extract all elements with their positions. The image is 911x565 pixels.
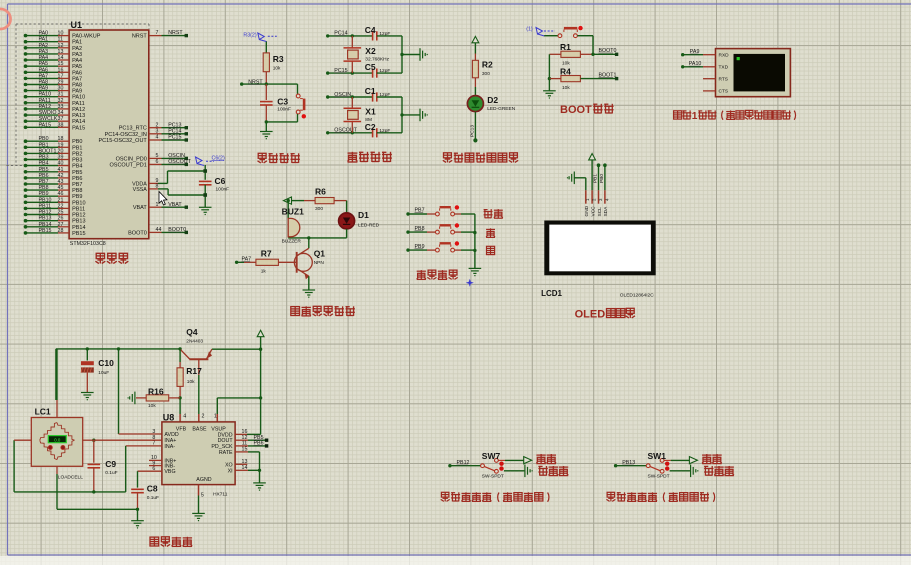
svg-text:PA11: PA11 bbox=[72, 101, 85, 107]
svg-text:6: 6 bbox=[156, 159, 159, 165]
svg-text:GND: GND bbox=[584, 205, 590, 216]
svg-text:PB11: PB11 bbox=[72, 206, 85, 212]
svg-text:STM32F103C8: STM32F103C8 bbox=[70, 241, 106, 247]
svg-text:8: 8 bbox=[156, 184, 159, 190]
svg-text:SCL: SCL bbox=[597, 207, 603, 217]
svg-text:PB11: PB11 bbox=[39, 203, 52, 209]
svg-text:PB6: PB6 bbox=[72, 176, 82, 182]
svg-text:TXD: TXD bbox=[719, 65, 729, 71]
svg-text:PA12: PA12 bbox=[72, 107, 85, 113]
svg-text:PA6: PA6 bbox=[72, 70, 82, 76]
svg-text:C4: C4 bbox=[365, 25, 376, 35]
svg-text:X2: X2 bbox=[365, 46, 376, 56]
svg-text:PC14-OSC32_IN: PC14-OSC32_IN bbox=[105, 132, 147, 138]
svg-text:3: 3 bbox=[152, 429, 155, 435]
svg-text:PA4: PA4 bbox=[39, 55, 49, 61]
svg-text:PB12: PB12 bbox=[72, 213, 85, 219]
svg-text:XI: XI bbox=[228, 468, 233, 474]
svg-text:C2: C2 bbox=[365, 122, 376, 132]
svg-text:PB7: PB7 bbox=[39, 179, 49, 185]
svg-text:PB15: PB15 bbox=[39, 228, 52, 234]
svg-text:NRST: NRST bbox=[132, 34, 148, 40]
svg-text:PB0: PB0 bbox=[72, 139, 82, 145]
svg-text:PA14: PA14 bbox=[72, 119, 85, 125]
svg-text:R2: R2 bbox=[482, 60, 493, 70]
svg-text:38: 38 bbox=[58, 122, 64, 128]
svg-text:42: 42 bbox=[58, 173, 64, 179]
svg-text:PA9: PA9 bbox=[39, 86, 49, 92]
svg-text:R1: R1 bbox=[560, 42, 571, 52]
svg-text:PB12: PB12 bbox=[39, 210, 52, 216]
svg-text:41: 41 bbox=[58, 167, 64, 173]
svg-text:30: 30 bbox=[58, 86, 64, 92]
svg-text:PA8: PA8 bbox=[72, 83, 82, 89]
svg-text:D1: D1 bbox=[358, 210, 369, 220]
svg-text:PA3: PA3 bbox=[72, 52, 82, 58]
svg-text:27: 27 bbox=[58, 222, 64, 228]
svg-text:PB0: PB0 bbox=[39, 136, 49, 142]
svg-text:CTS: CTS bbox=[719, 89, 729, 95]
svg-text:SW-SPDT: SW-SPDT bbox=[648, 474, 670, 480]
svg-text:PB1: PB1 bbox=[593, 174, 599, 183]
svg-text:LOADCELL: LOADCELL bbox=[58, 475, 83, 481]
svg-text:R6: R6 bbox=[315, 187, 326, 197]
svg-text:100nF: 100nF bbox=[277, 107, 291, 113]
svg-text:PA13: PA13 bbox=[72, 113, 85, 119]
svg-text:PA5: PA5 bbox=[72, 64, 82, 70]
svg-text:18: 18 bbox=[58, 136, 64, 142]
svg-text:10k: 10k bbox=[187, 379, 195, 385]
svg-text:33: 33 bbox=[58, 104, 64, 110]
svg-text:PA7: PA7 bbox=[39, 73, 49, 79]
svg-text:PB15: PB15 bbox=[72, 231, 85, 237]
svg-text:PB3: PB3 bbox=[72, 158, 82, 164]
svg-text:U8: U8 bbox=[163, 412, 175, 422]
svg-text:5: 5 bbox=[201, 493, 204, 499]
svg-text:0.0: 0.0 bbox=[54, 438, 61, 443]
svg-text:PC13_RTC: PC13_RTC bbox=[119, 126, 147, 132]
svg-text:LCD1: LCD1 bbox=[541, 289, 562, 298]
svg-text:R16: R16 bbox=[148, 386, 164, 396]
svg-text:PB13: PB13 bbox=[72, 219, 85, 225]
svg-text:VSSA: VSSA bbox=[133, 187, 148, 193]
svg-text:Q4: Q4 bbox=[186, 327, 198, 337]
svg-text:C3: C3 bbox=[277, 97, 288, 107]
svg-text:PA1: PA1 bbox=[72, 40, 82, 46]
svg-text:PA11: PA11 bbox=[39, 98, 51, 104]
svg-text:PA5: PA5 bbox=[39, 61, 49, 67]
svg-text:PB8: PB8 bbox=[72, 188, 82, 194]
svg-text:39: 39 bbox=[58, 155, 64, 161]
svg-text:10: 10 bbox=[58, 31, 64, 37]
svg-text:300: 300 bbox=[482, 71, 490, 77]
svg-text:OSCOUT_PD1: OSCOUT_PD1 bbox=[110, 162, 147, 168]
svg-text:PA10: PA10 bbox=[39, 92, 52, 98]
svg-text:OLED12864I2C: OLED12864I2C bbox=[620, 293, 654, 299]
svg-text:PB10: PB10 bbox=[72, 200, 85, 206]
svg-text:NPN: NPN bbox=[314, 260, 325, 266]
svg-text:28: 28 bbox=[58, 228, 64, 234]
svg-text:LED-RED: LED-RED bbox=[358, 223, 380, 229]
svg-text:SW7: SW7 bbox=[482, 451, 501, 461]
svg-text:D2: D2 bbox=[487, 95, 498, 105]
svg-text:1: 1 bbox=[692, 111, 698, 122]
svg-text:100nF: 100nF bbox=[216, 187, 230, 193]
svg-text:VBG: VBG bbox=[164, 469, 175, 475]
svg-text:PA9: PA9 bbox=[72, 89, 82, 95]
svg-text:4: 4 bbox=[156, 135, 159, 141]
svg-text:PB1: PB1 bbox=[72, 145, 82, 151]
svg-text:21: 21 bbox=[58, 197, 64, 203]
svg-text:2N4403: 2N4403 bbox=[186, 339, 203, 345]
svg-text:22: 22 bbox=[58, 203, 64, 209]
svg-text:10k: 10k bbox=[148, 403, 156, 409]
svg-text:11: 11 bbox=[58, 37, 64, 43]
svg-text:PC15-OSC32_OUT: PC15-OSC32_OUT bbox=[99, 138, 148, 144]
svg-text:Q1: Q1 bbox=[314, 249, 326, 259]
svg-text:R4: R4 bbox=[560, 66, 571, 76]
svg-text:PB0: PB0 bbox=[599, 174, 605, 183]
svg-text:PA8: PA8 bbox=[39, 80, 49, 86]
svg-text:(1): (1) bbox=[526, 27, 533, 33]
svg-text:SW-SPDT: SW-SPDT bbox=[482, 474, 504, 480]
svg-text:SDA: SDA bbox=[603, 206, 609, 217]
svg-text:PB5: PB5 bbox=[72, 170, 82, 176]
svg-text:PA1: PA1 bbox=[39, 37, 49, 43]
svg-text:C10: C10 bbox=[98, 358, 114, 368]
svg-text:16: 16 bbox=[58, 67, 64, 73]
svg-text:BUZ1: BUZ1 bbox=[282, 207, 304, 217]
svg-text:14: 14 bbox=[58, 55, 64, 61]
svg-text:U1: U1 bbox=[71, 20, 83, 30]
svg-text:PB8: PB8 bbox=[39, 185, 49, 191]
svg-text:BOOT1: BOOT1 bbox=[39, 148, 57, 154]
svg-text:10k: 10k bbox=[273, 66, 281, 72]
svg-text:RXD: RXD bbox=[719, 53, 730, 59]
svg-text:R17: R17 bbox=[186, 366, 202, 376]
svg-text:PA12: PA12 bbox=[39, 104, 52, 110]
svg-text:31: 31 bbox=[58, 92, 64, 98]
svg-text:10k: 10k bbox=[562, 85, 570, 91]
svg-text:34: 34 bbox=[58, 110, 64, 116]
svg-text:R3: R3 bbox=[273, 54, 284, 64]
svg-text:43: 43 bbox=[58, 179, 64, 185]
svg-text:LC1: LC1 bbox=[35, 407, 51, 417]
svg-text:PB6: PB6 bbox=[39, 173, 49, 179]
svg-text:PA15: PA15 bbox=[39, 122, 52, 128]
svg-text:BOOT: BOOT bbox=[560, 104, 592, 116]
svg-text:PA6: PA6 bbox=[39, 67, 49, 73]
svg-text:RATE: RATE bbox=[219, 450, 233, 456]
svg-text:19: 19 bbox=[58, 142, 64, 148]
svg-text:PB5: PB5 bbox=[39, 167, 49, 173]
svg-text:44: 44 bbox=[156, 227, 162, 233]
svg-text:1: 1 bbox=[214, 414, 217, 420]
svg-text:PA7: PA7 bbox=[72, 76, 82, 82]
svg-text:PA4: PA4 bbox=[72, 58, 82, 64]
svg-text:2: 2 bbox=[202, 414, 205, 420]
svg-text:AGND: AGND bbox=[196, 477, 211, 483]
svg-text:PA2: PA2 bbox=[39, 43, 49, 49]
svg-text:PC13: PC13 bbox=[469, 125, 475, 137]
svg-text:15: 15 bbox=[58, 61, 64, 67]
svg-text:PB10: PB10 bbox=[39, 197, 52, 203]
svg-text:PB7: PB7 bbox=[72, 182, 82, 188]
svg-text:26: 26 bbox=[58, 216, 64, 222]
svg-text:PB4: PB4 bbox=[72, 164, 82, 170]
svg-text:PB4: PB4 bbox=[39, 161, 49, 167]
svg-text:PA2: PA2 bbox=[72, 46, 82, 52]
svg-text:0.1uF: 0.1uF bbox=[105, 470, 117, 476]
svg-text:2: 2 bbox=[156, 122, 159, 128]
svg-text:46: 46 bbox=[58, 191, 64, 197]
svg-text:1: 1 bbox=[156, 202, 159, 208]
svg-text:C9: C9 bbox=[105, 459, 116, 469]
svg-text:PB9: PB9 bbox=[72, 194, 82, 200]
svg-text:BUZZER: BUZZER bbox=[282, 239, 302, 245]
svg-text:1k: 1k bbox=[261, 269, 267, 275]
svg-text:12: 12 bbox=[58, 43, 64, 49]
svg-text:PB1: PB1 bbox=[39, 142, 49, 148]
svg-text:PA10: PA10 bbox=[72, 95, 85, 101]
svg-text:45: 45 bbox=[58, 185, 64, 191]
svg-text:BASE: BASE bbox=[192, 427, 207, 433]
svg-text:25: 25 bbox=[58, 210, 64, 216]
svg-text:PA0-WKUP: PA0-WKUP bbox=[72, 34, 101, 40]
svg-text:40: 40 bbox=[58, 161, 64, 167]
svg-text:29: 29 bbox=[58, 80, 64, 86]
svg-text:7: 7 bbox=[156, 30, 159, 36]
svg-text:C1: C1 bbox=[365, 86, 376, 96]
svg-text:SW1: SW1 bbox=[648, 451, 667, 461]
svg-text:PB14: PB14 bbox=[39, 222, 52, 228]
svg-text:PA0: PA0 bbox=[39, 31, 49, 37]
svg-text:OLED: OLED bbox=[575, 309, 606, 321]
svg-text:PB2: PB2 bbox=[72, 151, 82, 157]
svg-text:C5: C5 bbox=[365, 62, 376, 72]
svg-text:13: 13 bbox=[58, 49, 64, 55]
svg-text:HX711: HX711 bbox=[213, 492, 228, 498]
svg-text:C8: C8 bbox=[147, 484, 158, 494]
svg-text:SWCLK: SWCLK bbox=[39, 116, 58, 122]
svg-text:INA-: INA- bbox=[164, 444, 175, 450]
svg-text:10uF: 10uF bbox=[98, 370, 109, 376]
svg-text:3: 3 bbox=[156, 128, 159, 134]
svg-text:PB3: PB3 bbox=[39, 155, 49, 161]
svg-text:R3(2): R3(2) bbox=[243, 33, 256, 39]
svg-text:PB14: PB14 bbox=[72, 225, 85, 231]
svg-text:0.1uF: 0.1uF bbox=[147, 495, 159, 501]
svg-text:SWDIO: SWDIO bbox=[39, 110, 57, 116]
svg-text:X1: X1 bbox=[365, 106, 376, 116]
svg-text:17: 17 bbox=[58, 73, 64, 79]
svg-text:PB9: PB9 bbox=[39, 191, 49, 197]
svg-text:R7: R7 bbox=[261, 249, 272, 259]
svg-text:VBAT: VBAT bbox=[133, 205, 148, 211]
svg-text:BOOT0: BOOT0 bbox=[128, 230, 147, 236]
svg-text:32: 32 bbox=[58, 98, 64, 104]
svg-text:C6: C6 bbox=[215, 176, 226, 186]
svg-text:RTS: RTS bbox=[719, 77, 729, 83]
svg-text:AVDD: AVDD bbox=[164, 432, 178, 438]
svg-text:PA15: PA15 bbox=[72, 125, 85, 131]
svg-text:4: 4 bbox=[183, 414, 186, 420]
svg-text:300: 300 bbox=[315, 206, 323, 212]
svg-text:VCC: VCC bbox=[590, 206, 596, 217]
svg-text:PB13: PB13 bbox=[39, 216, 52, 222]
svg-text:37: 37 bbox=[58, 116, 64, 122]
svg-text:PA3: PA3 bbox=[39, 49, 49, 55]
svg-text:LED-GREEN: LED-GREEN bbox=[487, 106, 516, 112]
svg-text:20: 20 bbox=[58, 148, 64, 154]
